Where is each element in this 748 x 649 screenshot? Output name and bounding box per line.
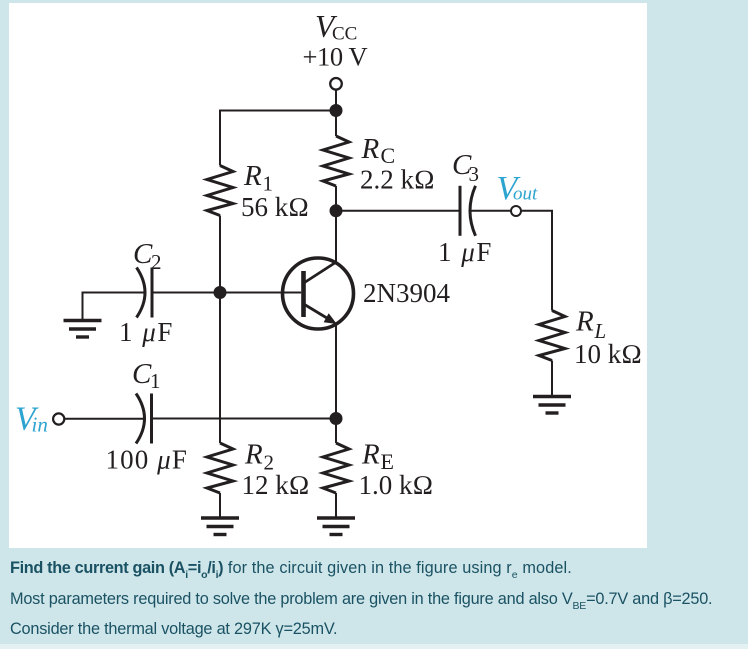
- svg-text:in: in: [32, 413, 48, 437]
- ground RL: [533, 397, 571, 414]
- ground R2: [201, 518, 239, 535]
- svg-text:2.2 kΩ: 2.2 kΩ: [360, 165, 435, 195]
- svg-text:1 μF: 1 μF: [438, 237, 493, 267]
- wire emitter node to RE: [335, 419, 337, 444]
- capacitor C2: [137, 268, 153, 318]
- terminal Vin: [53, 413, 64, 424]
- node Vcc junction: [330, 104, 343, 117]
- svg-text:out: out: [513, 184, 538, 205]
- svg-text:100 μF: 100 μF: [106, 445, 188, 475]
- label C3: [452, 149, 479, 186]
- label C3 value 1 uF: [438, 237, 493, 267]
- svg-text:1.0 kΩ: 1.0 kΩ: [359, 470, 434, 500]
- wire Vin to C1: [65, 418, 145, 420]
- label C1 value 100 uF: [106, 445, 188, 475]
- svg-text:1 μF: 1 μF: [119, 317, 174, 347]
- svg-text:R: R: [361, 439, 380, 471]
- resistor RL: [539, 311, 565, 361]
- wire RL to ground: [551, 361, 553, 396]
- wire C3 to Vout: [470, 210, 511, 212]
- label R1: [241, 160, 309, 222]
- node emitter junction: [330, 412, 343, 425]
- wire R2 to ground: [219, 493, 221, 518]
- svg-text:+10 V: +10 V: [303, 42, 368, 72]
- label C2: [133, 238, 162, 274]
- resistor R1: [207, 166, 233, 216]
- svg-text:C: C: [132, 358, 152, 390]
- wire R1 to base node: [219, 216, 221, 293]
- capacitor C1: [136, 394, 152, 444]
- wire top rail: [220, 111, 336, 166]
- label RC: [360, 133, 435, 195]
- svg-text:12 kΩ: 12 kΩ: [242, 470, 310, 500]
- svg-text:2: 2: [151, 250, 162, 274]
- svg-text:R: R: [243, 160, 262, 192]
- wire Vcc rail to Rc: [335, 111, 337, 137]
- wire RE to ground: [335, 493, 337, 518]
- wire C2 to ground: [83, 293, 146, 320]
- label 2N3904: [363, 278, 450, 308]
- wire Vout to RL: [521, 211, 553, 311]
- resistor RE: [323, 443, 349, 493]
- Vcc terminal: [330, 78, 342, 90]
- wire Vcc stub: [335, 90, 337, 110]
- svg-text:R: R: [575, 306, 594, 338]
- svg-text:R: R: [361, 133, 380, 165]
- wire collector to C3: [336, 210, 460, 212]
- svg-text:R: R: [244, 439, 263, 471]
- label C2 value 1 uF: [119, 317, 174, 347]
- transistor Q1 2N3904: [283, 258, 354, 329]
- label C1: [132, 358, 161, 393]
- ground C2: [64, 321, 102, 338]
- svg-text:10 kΩ: 10 kΩ: [574, 339, 642, 369]
- svg-text:C: C: [133, 238, 153, 270]
- label RL: [574, 306, 642, 370]
- svg-text:2N3904: 2N3904: [363, 278, 450, 308]
- node base junction: [214, 286, 227, 299]
- wire C1 to emitter node: [152, 418, 337, 420]
- label R2: [242, 439, 310, 501]
- terminal Vout: [511, 206, 521, 216]
- node collector junction: [330, 204, 343, 217]
- ground RE: [317, 518, 355, 535]
- svg-text:56 kΩ: 56 kΩ: [241, 192, 309, 222]
- label Vin: [15, 401, 48, 438]
- wire Rc to collector: [335, 186, 337, 263]
- svg-text:3: 3: [469, 162, 480, 186]
- wire base node to R2: [219, 293, 221, 444]
- capacitor C3: [460, 186, 476, 236]
- wire base: [152, 292, 301, 294]
- label RE: [359, 439, 434, 501]
- resistor RC: [323, 136, 349, 186]
- label Vout: [497, 170, 539, 207]
- Vcc supply label: [303, 9, 368, 72]
- resistor R2: [207, 443, 233, 493]
- wire emitter: [335, 324, 337, 419]
- svg-text:1: 1: [150, 369, 161, 393]
